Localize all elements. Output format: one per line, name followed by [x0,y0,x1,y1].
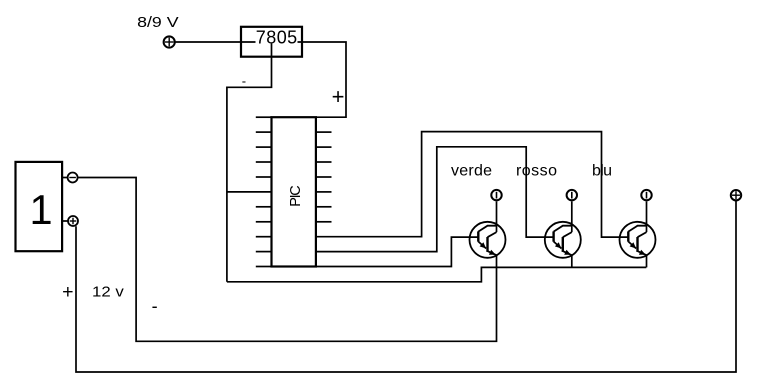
PIC pins left [256,117,272,266]
wire PIC to Q2 base (rosso) [316,147,554,252]
wire minus to PIC left pin [227,191,272,193]
wire PIC to Q1 base (verde) [316,237,479,266]
PIC pins right [316,132,332,222]
transistor Q1 (verde, darlington) [470,222,506,258]
terminal battery - [62,173,78,183]
svg-text:verde: verde [451,163,492,180]
svg-text:1: 1 [29,186,52,233]
wire battery + bottom loop to right terminal [76,201,736,372]
svg-text:+: + [332,84,345,109]
regulator U2 7805 [241,27,302,57]
svg-text:12 v: 12 v [92,284,124,300]
svg-text:PIC: PIC [288,185,304,207]
wire 7805 output to PIC pin1 [302,42,346,117]
transistor Q3 (blu, darlington) [620,222,656,258]
lamp terminal L1 (verde) [491,190,501,200]
wire L1 to Q1 collector [496,201,498,232]
wire battery - to Q1 emitter [78,178,497,342]
IC U1 PIC [272,117,316,266]
wire Q3 emitter to bus [646,255,648,267]
wire input to 7805 through box [175,41,302,43]
lamp terminal L2 (rosso) [567,190,577,200]
wire Q2 emitter to bus [571,255,573,267]
wire L2 to Q2 collector [571,201,573,232]
svg-text:-: - [242,73,246,88]
battery B1 [16,162,63,251]
terminal input + [164,36,175,47]
svg-text:-: - [152,296,158,316]
terminal battery + [62,216,78,226]
wire minus bottom run to emitter bus [227,267,646,281]
svg-text:rosso: rosso [516,163,557,180]
wire 7805 minus lead [227,42,272,282]
transistor Q2 (rosso, darlington) [545,222,581,258]
svg-text:7805: 7805 [256,27,298,47]
svg-text:+: + [62,281,73,303]
terminal + right [731,190,741,200]
svg-text:8/9 V: 8/9 V [137,14,179,30]
wire L3 to Q3 collector [646,201,648,232]
wire PIC to Q3 base (blu) [316,132,629,238]
lamp terminal L3 (blu) [641,190,651,200]
